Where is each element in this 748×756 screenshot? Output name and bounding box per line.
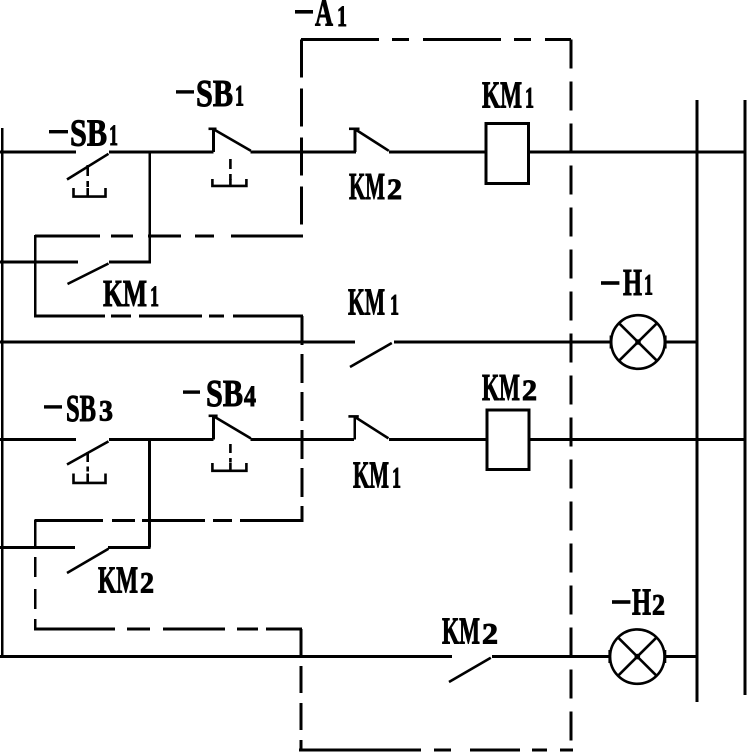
label -SB1 (start) [49,112,118,154]
node after SB3: junction vertical to KM2 aux [148,440,151,548]
svg-text:1: 1 [392,462,401,495]
pushbutton SB1 NO (start) [67,154,109,197]
label KM1 (interlock row3) [353,455,401,497]
svg-text:SB: SB [66,388,96,430]
wire row1 [0,151,746,154]
A1 box left edge middle [301,316,304,522]
wire KM1 aux self-hold branch [0,261,151,264]
A1 box left edge lower [300,629,303,750]
svg-text:KM: KM [482,367,520,409]
svg-text:SB: SB [196,73,233,115]
A1 notch2 top edge [35,519,303,522]
svg-text:SB: SB [70,112,107,154]
svg-text:4: 4 [244,380,256,413]
svg-text:1: 1 [390,289,399,322]
svg-text:1: 1 [150,280,159,313]
node after SB1: junction vertical to KM1 aux [148,152,151,262]
wire row2 (lamp H1 branch) [0,341,697,344]
contact KM1 NO row2 [350,343,392,367]
svg-text:1: 1 [109,119,118,152]
label -A1 [295,0,347,35]
svg-text:1: 1 [525,82,534,115]
label KM1 (self-hold) [103,273,159,315]
svg-text:1: 1 [235,80,244,113]
svg-text:3: 3 [99,395,113,428]
label -H2 [612,581,665,623]
svg-text:1: 1 [337,0,347,33]
svg-text:KM: KM [353,455,389,497]
label KM2 (self-hold) [98,560,154,602]
contact KM2 NO row4 [449,658,491,682]
coil KM1 [486,124,529,184]
svg-text:KM: KM [103,273,147,315]
svg-text:2: 2 [482,618,498,651]
svg-text:2: 2 [387,173,402,206]
svg-text:1: 1 [644,269,653,302]
svg-text:KM: KM [482,75,522,117]
pushbutton SB4 NC [209,415,251,471]
contact KM1 NC interlock row3 [348,416,388,440]
A1 box left edge upper [300,40,303,238]
label KM1 (row2) [348,282,399,324]
wire row3 [0,438,746,441]
wire row4 (lamp H2 branch) [0,655,697,658]
left supply rail [1,128,4,658]
svg-text:2: 2 [652,588,665,621]
A1 notch2 left edge [34,519,37,630]
svg-text:2: 2 [140,567,154,600]
wire KM2 aux self-hold branch [0,546,151,549]
contact KM2 NC interlock row1 [349,129,389,153]
pushbutton SB3 NO [67,441,109,483]
A1 notch1 bottom edge [35,315,303,318]
label -SB1 (stop) [176,73,244,115]
svg-text:KM: KM [98,560,138,602]
A1 box top edge [301,38,571,41]
svg-text:SB: SB [206,373,243,415]
svg-text:KM: KM [348,282,385,324]
A1 notch2 bottom edge [35,628,302,631]
label -SB3 [44,388,113,430]
right rail inner [696,100,699,702]
label KM2 (coil) [482,367,537,409]
svg-text:2: 2 [522,374,537,407]
label KM2 (row4) [442,611,498,653]
right rail outer [744,100,747,695]
svg-text:H: H [623,262,642,304]
svg-text:A: A [315,0,333,35]
svg-text:H: H [632,581,651,623]
label -SB4 [183,373,256,415]
label -H1 [601,262,653,304]
lamp H1 [611,315,665,369]
coil KM2 [487,410,529,470]
contact KM2 NO self-hold [67,549,109,573]
contact KM1 NO self-hold [68,264,109,285]
A1 notch1 left edge [34,235,37,317]
label KM2 (interlock row1) [349,166,402,208]
lamp H2 [610,629,665,683]
A1 notch1 top edge [35,235,303,238]
svg-text:KM: KM [349,166,385,208]
A1 box right edge [569,40,572,751]
svg-text:KM: KM [442,611,480,653]
A1 box bottom edge [299,749,573,752]
pushbutton SB1 NC (stop) [209,128,251,186]
label KM1 (coil) [482,75,534,117]
